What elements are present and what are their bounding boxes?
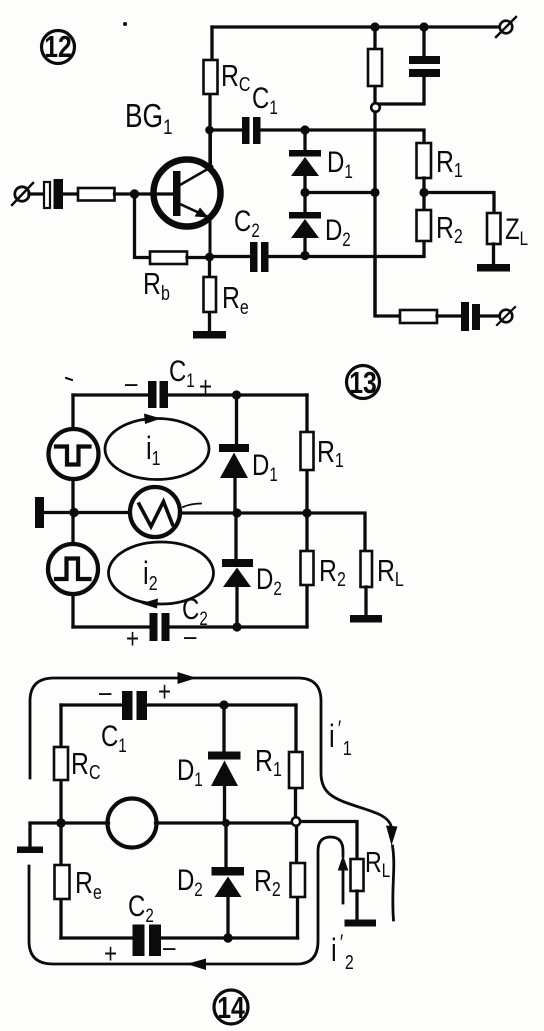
capacitor C2 bbox=[150, 613, 170, 641]
wire: left column bbox=[71, 395, 74, 627]
wire: top supply rail bbox=[212, 25, 498, 28]
svg-text:R2: R2 bbox=[254, 863, 281, 900]
svg-text:12: 12 bbox=[44, 29, 72, 63]
svg-text:–: – bbox=[99, 677, 112, 708]
capacitor C1 bbox=[148, 381, 168, 408]
ground: RL bbox=[350, 615, 382, 623]
ground: ZL bbox=[477, 264, 510, 272]
capacitor: output coupling bbox=[461, 302, 499, 331]
wire: midpoint to ZL bbox=[424, 193, 494, 214]
svg-text:C1: C1 bbox=[169, 353, 195, 391]
capacitor C2 bbox=[133, 925, 162, 957]
wire: left column bbox=[59, 705, 62, 938]
svg-text:13: 13 bbox=[349, 365, 377, 399]
ground: RL bar bbox=[345, 920, 377, 927]
current loop i1 bbox=[105, 414, 209, 480]
wire: output branch bbox=[375, 256, 400, 316]
wire: bottom line bbox=[61, 936, 298, 939]
node: collector / C1 junction bbox=[205, 126, 214, 135]
wire: main vertical bus x=375 bbox=[373, 112, 376, 314]
figure label (12) bbox=[42, 29, 75, 63]
svg-text:i′1: i′1 bbox=[329, 717, 352, 759]
resistor R2 bbox=[417, 210, 432, 241]
svg-text:C1: C1 bbox=[101, 718, 127, 756]
wire: mid-right to RL bbox=[301, 822, 358, 860]
node: left mid junction bbox=[56, 818, 65, 827]
resistor Re bbox=[55, 865, 70, 899]
resistor RC (collector) bbox=[204, 27, 218, 163]
diode D2 bbox=[212, 867, 245, 938]
svg-text:R2: R2 bbox=[319, 553, 346, 590]
transistor BG1 bbox=[154, 130, 221, 257]
svg-text:RL: RL bbox=[365, 845, 390, 881]
svg-text:D1: D1 bbox=[327, 144, 353, 182]
capacitor C2 bbox=[250, 242, 269, 272]
svg-text:+: + bbox=[199, 372, 212, 403]
resistor Rb bbox=[150, 252, 209, 265]
resistor RL bbox=[351, 859, 364, 920]
node: D1-D2 midpoint bbox=[300, 188, 309, 197]
node: base junction bbox=[130, 189, 139, 198]
node: mid / diode column bbox=[232, 508, 241, 517]
svg-text:RL: RL bbox=[377, 553, 404, 590]
svg-text:D2: D2 bbox=[177, 862, 203, 900]
diode D2 bbox=[289, 193, 321, 256]
node: top / diode column bbox=[219, 700, 228, 709]
diode D1 bbox=[289, 130, 321, 193]
diode D2 bbox=[222, 513, 253, 627]
resistor R1 bbox=[289, 752, 303, 788]
node: rail-dropper junction bbox=[370, 22, 379, 31]
capacitor C1 bbox=[212, 117, 424, 144]
svg-text:–: – bbox=[125, 368, 138, 399]
svg-text:RC: RC bbox=[221, 58, 250, 95]
node: mid / resistor column bbox=[302, 508, 311, 517]
svg-text:D1: D1 bbox=[177, 752, 203, 790]
svg-text:BG1: BG1 bbox=[125, 98, 172, 139]
capacitor: supply filter (unlabelled) bbox=[380, 27, 440, 104]
capacitor C1 bbox=[122, 691, 147, 720]
resistor: output series (unlabelled) bbox=[400, 310, 461, 323]
ground: emitter bbox=[193, 331, 226, 339]
arrow: i1 top (rightward) bbox=[178, 672, 197, 684]
svg-text:C2: C2 bbox=[234, 203, 260, 241]
arrow: i2 bottom (leftward) bbox=[187, 959, 207, 971]
diode D1 bbox=[208, 705, 241, 868]
resistor R2 bbox=[301, 551, 314, 585]
node: top centre junction bbox=[232, 390, 241, 399]
svg-text:+: + bbox=[104, 939, 117, 970]
speck: tick at top-left corner bbox=[66, 378, 72, 380]
node: open-circle node under dropper bbox=[371, 103, 380, 112]
source: pulse generator U (top left) bbox=[49, 429, 99, 479]
arrow: i1 right (downward) bbox=[386, 826, 398, 846]
svg-text:R1: R1 bbox=[436, 144, 463, 181]
svg-text:ZL: ZL bbox=[505, 211, 528, 249]
node: open-circle mid-right junction bbox=[292, 817, 300, 825]
terminal: left bar bbox=[17, 823, 61, 853]
node: bus midpoint dot bbox=[370, 188, 379, 197]
resistor RL bbox=[361, 551, 373, 615]
node: C1 line / D1 junction bbox=[300, 125, 309, 134]
resistor R1 bbox=[417, 143, 432, 210]
resistor ZL (load) bbox=[487, 213, 501, 264]
svg-text:i1: i1 bbox=[146, 431, 161, 469]
source: sawtooth generator (centre) bbox=[130, 487, 201, 537]
node: D2 bottom junction bbox=[300, 251, 309, 260]
wire: current loop i1 top and right bbox=[30, 678, 394, 920]
node: bottom / diode column bbox=[223, 933, 232, 942]
wire: emitter bottom line bbox=[209, 241, 424, 257]
wire: mid line left bbox=[44, 511, 130, 514]
arrow: i2 hairpin (upward) bbox=[338, 855, 349, 871]
svg-text:i2: i2 bbox=[143, 556, 158, 594]
svg-text:C1: C1 bbox=[252, 80, 278, 118]
svg-text:R1: R1 bbox=[317, 434, 344, 471]
current loop i2 bbox=[109, 542, 214, 609]
capacitor: input coupling bbox=[44, 179, 78, 209]
wire: right column bbox=[296, 705, 298, 938]
terminal: input (left) bbox=[12, 183, 44, 205]
wire: bottom line bbox=[73, 625, 307, 628]
resistor: supply dropper (unlabelled) bbox=[368, 27, 382, 103]
svg-text:+: + bbox=[126, 624, 139, 655]
node: emitter junction bbox=[205, 253, 214, 262]
resistor RC bbox=[54, 747, 68, 780]
wire: top line bbox=[73, 393, 307, 396]
svg-text:D2: D2 bbox=[325, 212, 351, 250]
figure label (14) bbox=[214, 990, 248, 1025]
source: pulse generator PI (bottom left) bbox=[48, 544, 98, 594]
resistor: input series (unlabelled) bbox=[78, 188, 172, 201]
svg-text:–: – bbox=[184, 621, 197, 652]
resistor R2 bbox=[291, 863, 306, 897]
svg-text:D1: D1 bbox=[252, 447, 278, 485]
wire: mid line right bbox=[180, 513, 366, 551]
diode D1 bbox=[219, 395, 249, 513]
svg-text:R1: R1 bbox=[255, 743, 282, 780]
svg-text:–: – bbox=[163, 932, 176, 963]
svg-text:+: + bbox=[158, 677, 171, 708]
speck: ink dot above BG1 bbox=[123, 22, 127, 26]
wire: current loop i2 bottom and hairpin bbox=[29, 837, 343, 964]
source: generator circle bbox=[61, 799, 291, 848]
svg-text:C2: C2 bbox=[128, 888, 154, 926]
figure label (13) bbox=[347, 365, 380, 399]
svg-text:i′2: i′2 bbox=[331, 931, 354, 973]
terminal: output (bottom right) bbox=[497, 307, 515, 325]
svg-text:Rb: Rb bbox=[143, 266, 170, 304]
node: rail-filter-cap junction bbox=[419, 22, 428, 31]
svg-text:D2: D2 bbox=[256, 561, 282, 599]
svg-text:Re: Re bbox=[75, 865, 102, 903]
wire: midpoint link to bus bbox=[305, 191, 375, 194]
svg-text:Re: Re bbox=[222, 280, 249, 318]
wire: right column bbox=[305, 395, 308, 627]
resistor R1 bbox=[301, 432, 314, 470]
wire: top line bbox=[61, 703, 296, 706]
svg-text:R2: R2 bbox=[436, 210, 463, 247]
wire: base bias drop bbox=[135, 194, 151, 258]
terminal: left input bar bbox=[35, 497, 44, 528]
terminal: +V supply (top right) bbox=[496, 17, 516, 37]
node: left column mid junction bbox=[69, 508, 78, 517]
svg-text:14: 14 bbox=[217, 990, 245, 1024]
node: mid / diode column bbox=[222, 819, 230, 827]
svg-text:RC: RC bbox=[71, 746, 100, 783]
node: bottom / diode column bbox=[232, 622, 241, 631]
resistor Re bbox=[204, 257, 217, 331]
node: R1-R2 midpoint bbox=[419, 188, 428, 197]
